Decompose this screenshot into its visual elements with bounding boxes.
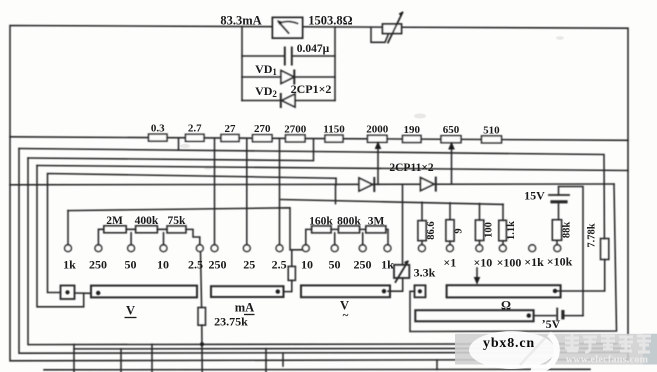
resistor 86.6 [421, 202, 423, 245]
battery B1 15V [549, 194, 569, 196]
bottom bus from V1 [19, 149, 628, 354]
wire: top box left vertical [241, 27, 243, 100]
wire: 3.3k vertical from diode bus [402, 184, 404, 264]
svg-text:2CP11×2: 2CP11×2 [389, 162, 433, 174]
terminal circles ohm group [419, 245, 426, 252]
bottom bus middle [74, 347, 628, 350]
watermark white blob + swoosh [469, 331, 555, 369]
watermark gray band bottom right [455, 334, 657, 365]
wire + resistor between mA wiper and 10 terminal [284, 250, 292, 292]
potentiometer RP2 3.3k [394, 265, 409, 278]
wire: ohm section top bus [281, 200, 503, 205]
svg-text:0.3: 0.3 [151, 123, 165, 135]
svg-text:10: 10 [301, 258, 313, 272]
resistor 88k [552, 220, 561, 241]
resistor 23.75k [198, 308, 206, 326]
arrow tap at 650 [451, 146, 453, 185]
diode VD3 2CP11 [359, 178, 373, 191]
wire: top box right vertical [334, 28, 336, 101]
resistor chain 800k [331, 229, 338, 244]
shunt chain wire [10, 137, 628, 141]
svg-text:250: 250 [89, 258, 107, 272]
svg-text:ybx8.cn: ybx8.cn [483, 336, 535, 351]
wire: V~ 10 terminal dogleg up to 160k [306, 229, 312, 244]
wire L4 nested bus [48, 174, 337, 293]
svg-text:ʼ5V: ʼ5V [542, 317, 561, 331]
svg-text:1.1k: 1.1k [506, 221, 517, 240]
svg-text:×10k: ×10k [547, 255, 573, 269]
wire: tap to 2.5mA terminal [279, 139, 281, 245]
terminal circles V group [65, 245, 72, 252]
svg-text:250: 250 [354, 258, 372, 272]
resistor chain 160k [312, 226, 332, 233]
wire: 3.3k bottom to V~ wiper [388, 278, 403, 291]
svg-text:75k: 75k [168, 215, 187, 227]
svg-text:2.7: 2.7 [188, 123, 202, 135]
battery B2 1.5V [534, 315, 556, 317]
resistor chain 400k [126, 229, 135, 245]
bottom bus from V2 [28, 158, 617, 345]
diode VD4 2CP11 [421, 178, 435, 191]
contact box K2 (with dot, right of V~ bar) [415, 285, 426, 297]
svg-text:1150: 1150 [323, 124, 345, 136]
svg-text:250: 250 [209, 258, 227, 272]
svg-text:25: 25 [243, 258, 255, 272]
junction dot 23.75k to bus [200, 342, 204, 346]
wire: 3M right to 1k terminal [386, 229, 388, 244]
svg-text:mA: mA [235, 301, 254, 315]
svg-text:9: 9 [454, 228, 465, 233]
bottom cut-off box edge [44, 368, 590, 371]
svg-text:2.5: 2.5 [188, 258, 203, 272]
svg-text:190: 190 [403, 124, 420, 136]
resistor chain 75k [157, 229, 167, 245]
svg-text:10: 10 [157, 258, 169, 272]
wire: 1k terminal stub [67, 211, 69, 245]
resistor 2.7 [186, 134, 205, 141]
svg-text:2CP1×2: 2CP1×2 [291, 82, 332, 96]
diode VD1 [242, 76, 335, 78]
switch bar ohm lower [415, 310, 533, 321]
svg-text:1k: 1k [381, 258, 394, 272]
svg-text:~: ~ [343, 310, 349, 322]
svg-text:1503.8Ω: 1503.8Ω [308, 14, 352, 28]
svg-text:×100: ×100 [497, 256, 522, 270]
svg-text:2000: 2000 [366, 124, 389, 136]
capacitor C1 0.047u [242, 55, 335, 57]
resistor 1.1k [502, 204, 504, 245]
wire: tap to 250mA terminal [214, 138, 216, 245]
wire: 1k terminal bus [68, 208, 302, 250]
svg-text:×10: ×10 [473, 256, 492, 270]
svg-text:400k: 400k [135, 215, 159, 227]
svg-text:86.6: 86.6 [426, 221, 437, 239]
resistor chain 3M [360, 229, 366, 244]
svg-text:3.3k: 3.3k [414, 266, 436, 280]
wire: V 2.5 terminal down to 23.75k [201, 252, 202, 308]
svg-text:×1k: ×1k [524, 255, 544, 269]
wire: tap to 25mA terminal [246, 138, 248, 244]
svg-text:V: V [126, 304, 135, 318]
resistor 9 [449, 203, 451, 245]
resistor 0.3 [149, 134, 168, 141]
svg-text:www.elecfans.com: www.elecfans.com [566, 355, 649, 366]
resistor 1150 [325, 135, 343, 142]
svg-text:88k: 88k [562, 222, 573, 239]
svg-text:50: 50 [125, 258, 137, 272]
svg-text:3M: 3M [368, 216, 385, 228]
svg-text:27: 27 [225, 123, 237, 135]
wire L2 nested bus [28, 139, 314, 161]
switch bar V [91, 286, 197, 298]
terminal circles V~ group [302, 245, 309, 252]
wire: rheostat bypass loop [371, 28, 389, 42]
svg-text:23.75k: 23.75k [214, 315, 248, 329]
resistor 190 [403, 136, 422, 143]
scan smudge marks [180, 144, 190, 148]
svg-text:0.047μ: 0.047μ [297, 43, 330, 55]
wire: 75k to 2.5 terminal dogleg [186, 229, 200, 244]
svg-text:2M: 2M [106, 215, 123, 227]
switch bar mA [211, 286, 284, 297]
svg-text:×1: ×1 [443, 256, 456, 270]
svg-text:650: 650 [443, 124, 460, 136]
watermark CJK glyph strokes (dianzi fashaoyou) [565, 334, 651, 352]
svg-text:VD1: VD1 [255, 62, 277, 77]
svg-text:800k: 800k [337, 215, 361, 227]
arrow into ohm bar from x10 [476, 268, 478, 282]
svg-text:VD2: VD2 [255, 84, 277, 99]
svg-text:Ω: Ω [501, 299, 511, 313]
meter M1 (galvanometer) [273, 18, 303, 39]
svg-text:15V: 15V [524, 189, 545, 203]
svg-text:1k: 1k [63, 258, 76, 272]
rheostat RP1 top right [383, 24, 402, 34]
wire L1 nested bus to 7.78k [19, 149, 604, 239]
diode VD2 (reversed) [242, 100, 335, 102]
arrow tap at 2000 [377, 145, 379, 185]
wire L3 nested bus [37, 166, 628, 171]
wire: V3 dogleg to contact wire [37, 166, 84, 307]
svg-text:7.78k: 7.78k [587, 223, 598, 247]
contact box K1 (left, with dot) [61, 286, 75, 300]
svg-text:2700: 2700 [284, 123, 307, 135]
bottom stub wires [73, 345, 75, 372]
wire: tap after 0.3 down to L1 [178, 138, 180, 150]
resistor 27 [221, 135, 239, 142]
svg-text:160k: 160k [309, 215, 333, 227]
switch bar V~ [301, 285, 390, 297]
resistor 650 [441, 136, 461, 143]
svg-text:50: 50 [329, 258, 341, 272]
svg-text:2.5: 2.5 [272, 258, 287, 272]
resistor chain 2M [98, 229, 103, 245]
svg-text:100: 100 [484, 222, 495, 238]
wire: diode bus right drop [410, 184, 617, 332]
svg-text:270: 270 [254, 123, 271, 135]
diode bus wire (2CP11 line) [10, 183, 614, 186]
switch bar ohm upper [447, 285, 561, 297]
resistor 270 [253, 135, 273, 142]
terminal circles mA group [211, 245, 218, 252]
resistor 100 [479, 204, 481, 245]
svg-text:83.3mA: 83.3mA [220, 14, 261, 28]
svg-text:510: 510 [483, 124, 500, 136]
resistor 2700 [286, 135, 306, 142]
resistor 510 [482, 136, 502, 143]
resistor 7.78k [601, 239, 609, 260]
resistor 2000 [368, 135, 388, 142]
wire: contact box to V bar [75, 292, 92, 294]
